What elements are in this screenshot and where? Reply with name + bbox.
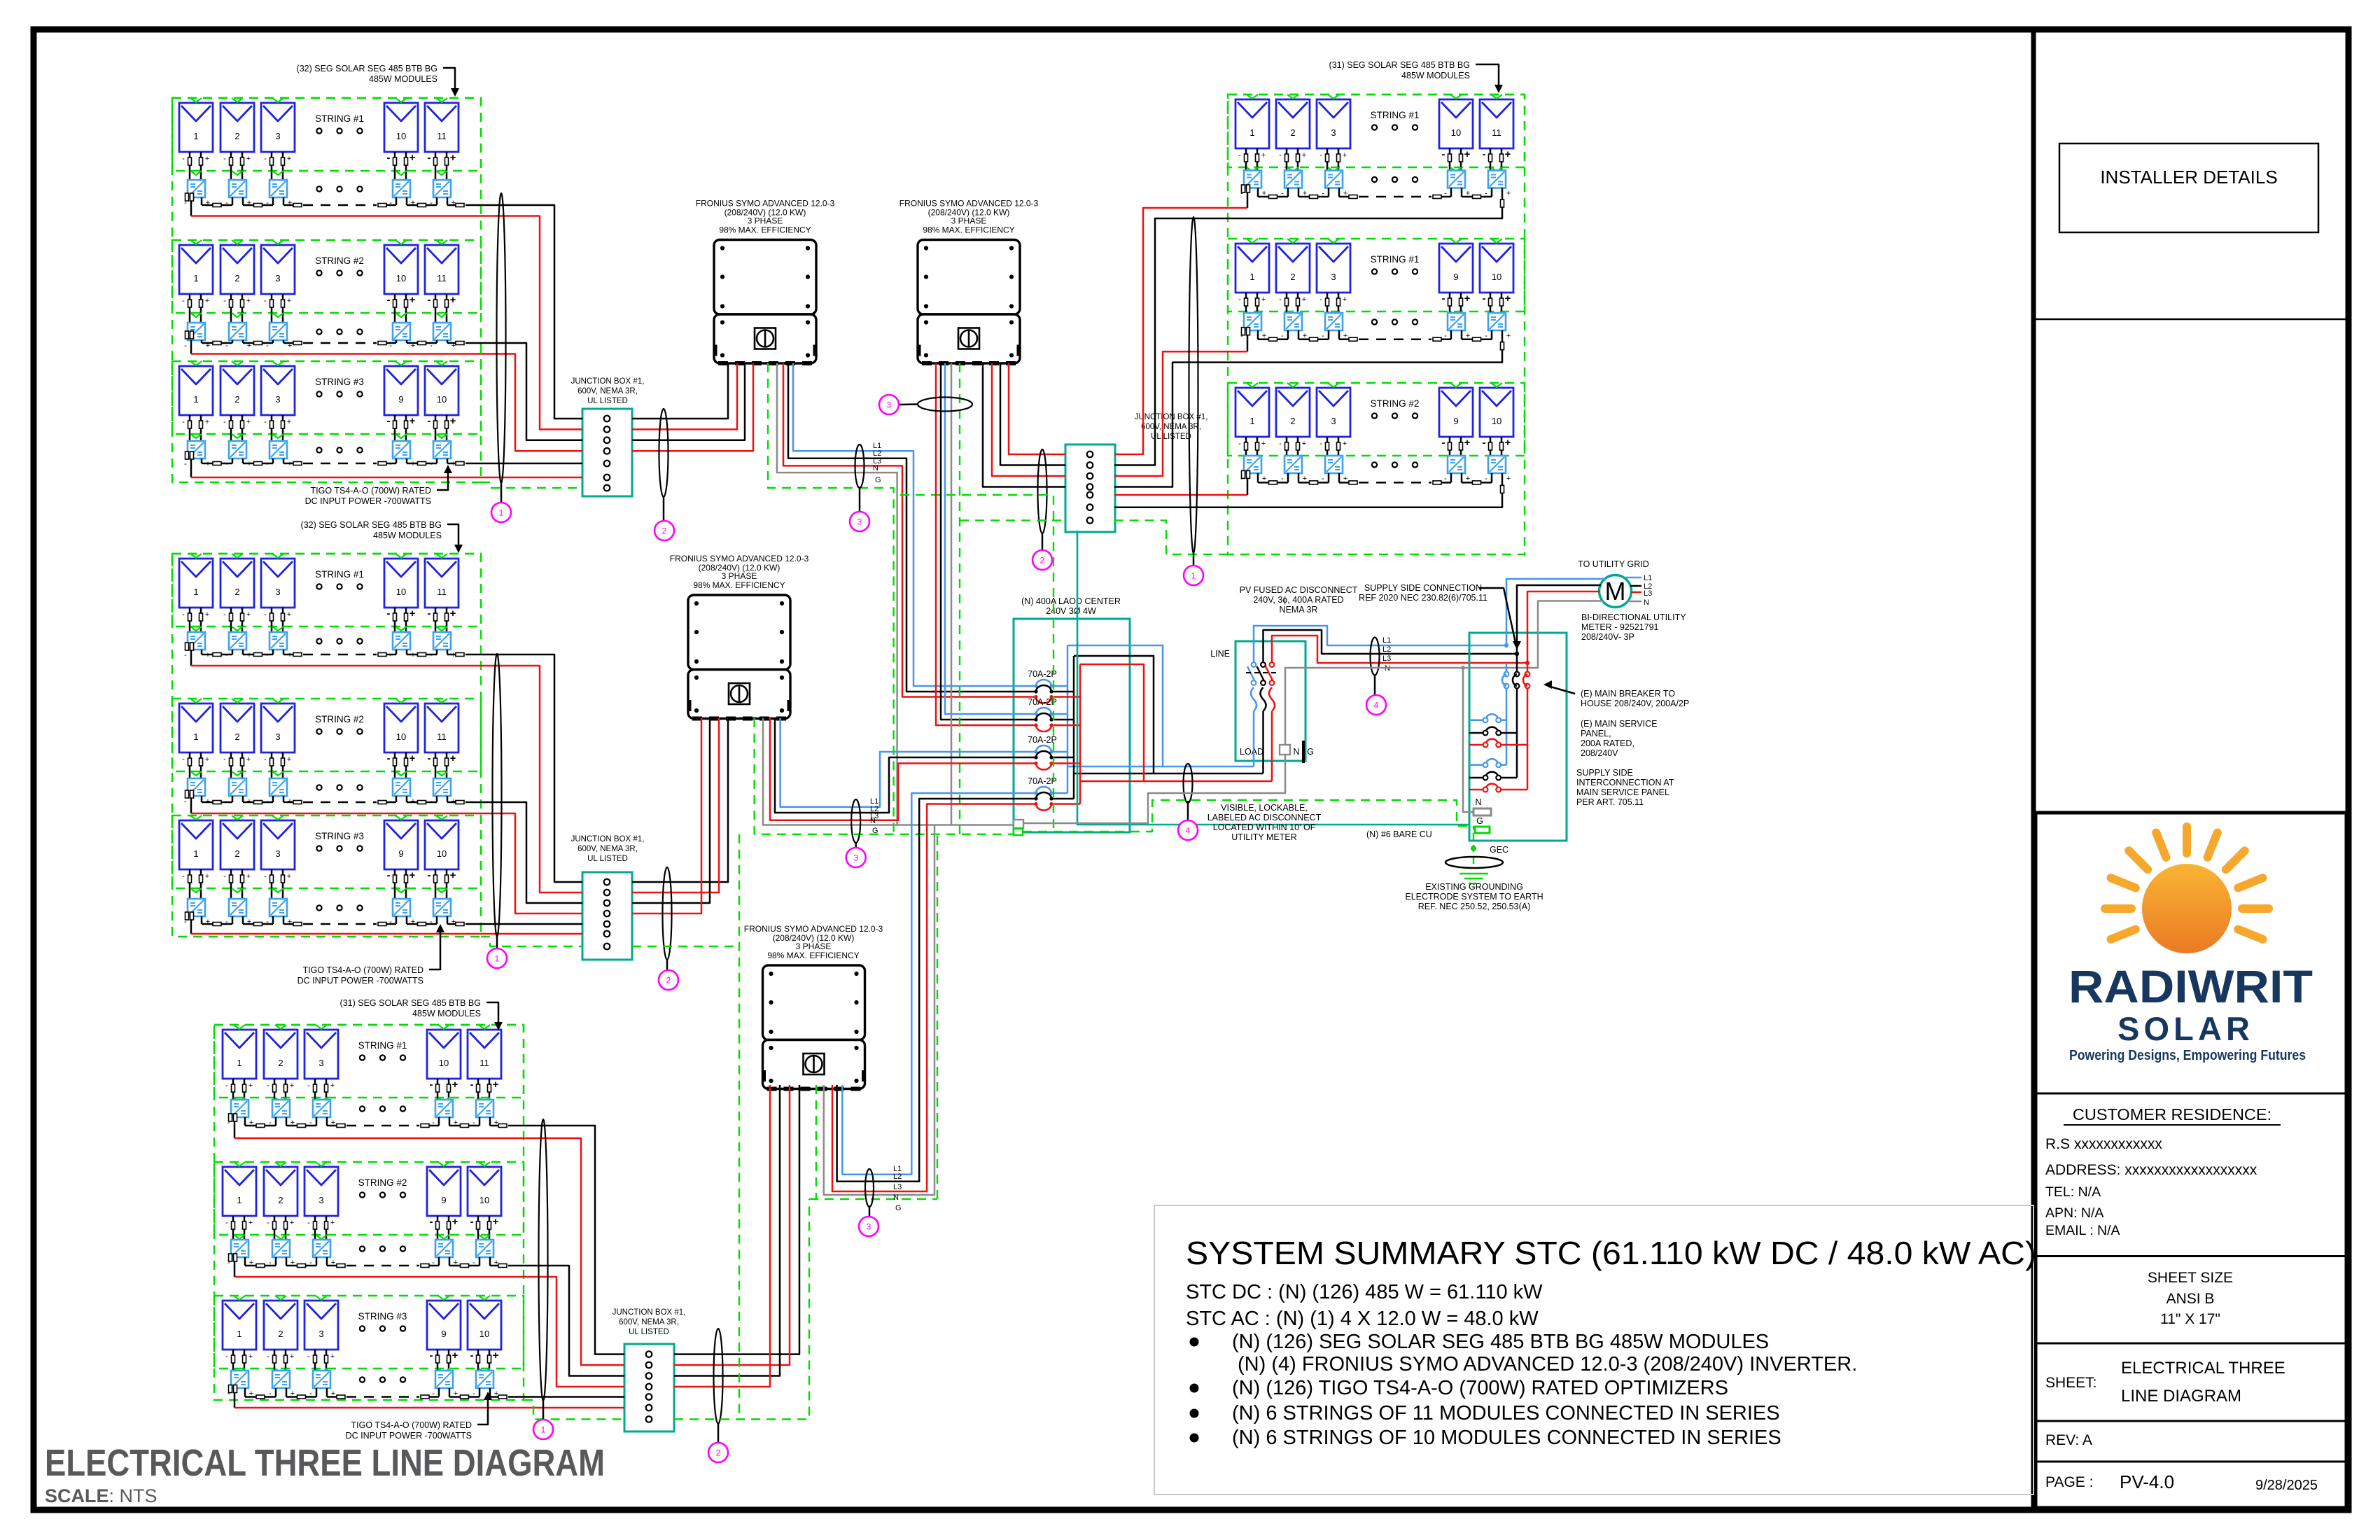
- svg-text:-: -: [223, 155, 226, 163]
- optimizer D3-9 (TIGO TS4-A-O): [1448, 456, 1465, 473]
- svg-text:REF. NEC 250.52, 250.53(A): REF. NEC 250.52, 250.53(A): [1418, 902, 1531, 911]
- wire: JB-C ground to ground run: [674, 1199, 809, 1420]
- PV module C3-9: [427, 1301, 461, 1350]
- svg-text:STRING #1: STRING #1: [315, 113, 364, 124]
- conduit tag leader: [855, 843, 857, 848]
- svg-text:-: -: [428, 869, 431, 881]
- svg-text:9: 9: [398, 848, 403, 859]
- green boundary notch over module: [275, 1025, 286, 1029]
- conduit tag leader: [666, 960, 668, 970]
- svg-text:L1: L1: [1644, 574, 1652, 582]
- service panel branch breaker pole (group1 2): [1485, 727, 1499, 733]
- svg-text:REF 2020 NEC 230.82(6)/705.11: REF 2020 NEC 230.82(6)/705.11: [1359, 593, 1487, 603]
- svg-text:N: N: [870, 817, 876, 825]
- svg-text:N: N: [893, 1193, 899, 1202]
- svg-text:+: +: [1464, 437, 1471, 449]
- junction box JB-A (group A combiner) terminal 6: [604, 475, 610, 481]
- wire: string A2 positive (black) to JB-A: [465, 343, 582, 440]
- svg-text:-: -: [428, 152, 431, 164]
- green boundary notch over module: [1491, 383, 1502, 387]
- svg-text:2: 2: [716, 1448, 721, 1458]
- svg-text:CUSTOMER RESIDENCE:: CUSTOMER RESIDENCE:: [2073, 1105, 2271, 1123]
- svg-text:2: 2: [278, 1195, 283, 1205]
- conduit tag leader: [496, 937, 498, 948]
- svg-text:-: -: [387, 294, 391, 306]
- svg-text:NEMA 3R: NEMA 3R: [1280, 605, 1318, 615]
- green boundary notch over module: [479, 1025, 490, 1029]
- module B2-10 output leads: [394, 752, 396, 778]
- svg-text:3 PHASE: 3 PHASE: [722, 571, 757, 581]
- svg-text:3: 3: [318, 1058, 323, 1068]
- svg-text:-: -: [264, 872, 267, 881]
- svg-text:2: 2: [278, 1329, 283, 1339]
- string C2 positive lead: [490, 1265, 500, 1267]
- string C2 module-row dashed boundary: [214, 1162, 524, 1235]
- green boundary notch over optimizer: [438, 1368, 449, 1373]
- green boundary notch over optimizer: [272, 771, 283, 776]
- svg-text:9/28/2025: 9/28/2025: [2255, 1478, 2318, 1493]
- junction box JB-B (group B combiner) enclosure: [582, 872, 632, 960]
- svg-text:+: +: [1261, 295, 1266, 304]
- svg-text:ADDRESS: xxxxxxxxxxxxxxxxxx: ADDRESS: xxxxxxxxxxxxxxxxxx: [2045, 1162, 2257, 1178]
- svg-text:SOLAR: SOLAR: [2117, 1010, 2257, 1047]
- wire: string C1 positive (black) to JB-C: [508, 1126, 624, 1354]
- optimizer B2-3 (TIGO TS4-A-O): [269, 778, 287, 796]
- wire: disconnect L3 line side (red): [1272, 636, 1527, 663]
- grounding electrode ellipse: [1445, 857, 1503, 868]
- wire: string C2 positive (black) to JB-C: [508, 1266, 624, 1376]
- svg-text:+: +: [409, 752, 416, 764]
- optimizer A2-2 (TIGO TS4-A-O): [229, 323, 246, 340]
- junction box JB-D (group D combiner) terminal 5: [1087, 492, 1093, 498]
- wire: string C3 negative (red) to JB-C: [234, 1407, 624, 1409]
- svg-text:-: -: [264, 755, 267, 764]
- PV module C2-3: [304, 1167, 338, 1216]
- string A3 positive lead: [447, 463, 457, 465]
- earth ground symbol: [1459, 873, 1488, 875]
- svg-text:-: -: [307, 1081, 310, 1090]
- load center neutral lug: [1014, 820, 1023, 828]
- string A3 series bus wiring: [190, 458, 192, 463]
- inverter U4 (Fronius Symo 12.0-3 bottom) upper enclosure: [763, 965, 865, 1040]
- svg-text:10: 10: [1492, 416, 1501, 426]
- svg-text:EMAIL : N/A: EMAIL : N/A: [2045, 1223, 2120, 1238]
- svg-text:JUNCTION BOX #1,: JUNCTION BOX #1,: [612, 1308, 686, 1317]
- svg-text:UL LISTED: UL LISTED: [1151, 433, 1191, 441]
- svg-text:10: 10: [1451, 127, 1461, 138]
- svg-text:INSTALLER DETAILS: INSTALLER DETAILS: [2100, 167, 2277, 188]
- svg-text:11: 11: [437, 131, 447, 141]
- junction box JB-C (group C combiner) terminal 7: [646, 1416, 652, 1422]
- svg-text:10: 10: [396, 731, 406, 742]
- svg-text:+: +: [452, 1350, 458, 1361]
- green boundary notch over module: [395, 699, 407, 703]
- svg-text:G: G: [1307, 747, 1314, 757]
- svg-text:-: -: [428, 752, 431, 764]
- PV module A2-2: [220, 245, 254, 294]
- optimizer A3-3 (TIGO TS4-A-O): [269, 441, 287, 458]
- optimizer row dots (A3): [316, 447, 321, 452]
- wire: meter neutral (gray): [1463, 601, 1603, 813]
- svg-text:LABELED AC DISCONNECT: LABELED AC DISCONNECT: [1207, 813, 1322, 822]
- svg-text:3: 3: [853, 853, 858, 863]
- conduit symbol: JB-D to U2: [1038, 449, 1047, 533]
- junction box JB-C (group C combiner) terminal 6: [646, 1405, 652, 1411]
- svg-text:G: G: [875, 476, 881, 484]
- string D3 series bus wiring: [1247, 473, 1249, 482]
- inverter U2 (Fronius Symo 12.0-3 top-right) upper enclosure: [918, 240, 1020, 315]
- optimizer D1-11 (TIGO TS4-A-O): [1488, 171, 1506, 188]
- main breaker pole L1: [1504, 672, 1509, 677]
- svg-text:STRING #3: STRING #3: [315, 831, 364, 841]
- sidebar divider: [2031, 29, 2036, 1510]
- wire: U3 neutral (gray) to LC: [763, 718, 1014, 825]
- string D1 module-row dashed boundary: [1228, 94, 1525, 167]
- green boundary notch over optimizer: [479, 1098, 490, 1102]
- module A1-11 output leads: [435, 152, 437, 180]
- green boundary notch over module: [1247, 239, 1258, 243]
- svg-text:LOAD: LOAD: [1240, 747, 1263, 757]
- green boundary notch over module: [316, 1296, 327, 1300]
- module D1-1 output leads: [1245, 148, 1247, 171]
- green boundary notch over optimizer: [438, 1235, 449, 1239]
- green boundary notch over module: [1328, 383, 1339, 387]
- green boundary notch over optimizer: [232, 313, 243, 317]
- svg-text:11: 11: [437, 731, 447, 742]
- string B1 series bus wiring: [190, 650, 192, 654]
- optimizer A1-10 (TIGO TS4-A-O): [393, 180, 410, 197]
- green boundary notch over optimizer: [1247, 167, 1258, 171]
- PV module B1-2: [220, 559, 254, 608]
- svg-text:70A-2P: 70A-2P: [1028, 735, 1057, 745]
- svg-text:-: -: [1279, 295, 1282, 304]
- svg-text:3: 3: [318, 1329, 323, 1339]
- svg-text:(N) 6 STRINGS OF 11 MODULES CO: (N) 6 STRINGS OF 11 MODULES CONNECTED IN…: [1232, 1402, 1780, 1424]
- green boundary notch over module: [436, 554, 447, 558]
- conduit tag 2 (JB-B feed): [659, 970, 678, 990]
- PV module A1-3: [261, 103, 295, 152]
- svg-text:+: +: [287, 155, 291, 163]
- svg-text:+: +: [205, 418, 209, 426]
- PV module B2-3: [261, 703, 295, 752]
- green boundary notch over module: [395, 554, 407, 558]
- optimizer D2-9 (TIGO TS4-A-O): [1448, 313, 1465, 330]
- svg-text:2: 2: [234, 131, 239, 141]
- wire: string D2 negative (red) to JB-D: [1114, 351, 1247, 476]
- service panel branch breaker pole (group2 1): [1485, 759, 1499, 764]
- inverter U2 (Fronius Symo 12.0-3 top-right) bottom gland plate: [922, 361, 932, 365]
- wire: string A1 positive (black) to JB-A: [465, 205, 582, 419]
- green boundary notch over optimizer: [232, 626, 243, 631]
- svg-text:1: 1: [237, 1058, 241, 1068]
- conduit tag 2 (JB-C feed): [708, 1443, 728, 1462]
- svg-text:METER - 92521791: METER - 92521791: [1581, 622, 1659, 632]
- wire: U4 L2 (black) to CB4: [837, 799, 1036, 1182]
- green boundary notch over optimizer: [272, 434, 283, 438]
- svg-text:LOCATED WITHIN 10' OF: LOCATED WITHIN 10' OF: [1213, 822, 1316, 832]
- AC disconnect pole L2 (fused switch): [1261, 662, 1266, 667]
- PV module C2-9: [427, 1167, 461, 1216]
- module A2-3 output leads: [271, 294, 273, 323]
- module B3-10 output leads: [435, 869, 437, 899]
- green boundary notch over optimizer: [190, 888, 202, 892]
- PV module B3-9: [384, 820, 418, 869]
- green boundary notch over optimizer: [1328, 167, 1339, 171]
- svg-text:+: +: [246, 297, 251, 305]
- svg-text:TEL: N/A: TEL: N/A: [2045, 1184, 2101, 1200]
- svg-text:2: 2: [278, 1058, 283, 1068]
- green boundary notch over module: [190, 240, 202, 244]
- green boundary notch over optimizer: [190, 626, 202, 631]
- optimizer row dots (C3): [360, 1377, 365, 1382]
- svg-text:3: 3: [867, 1222, 871, 1232]
- AC disconnect pole L1 (fused switch): [1252, 662, 1256, 667]
- svg-text:+: +: [1302, 295, 1306, 304]
- svg-text:10: 10: [439, 1058, 449, 1068]
- svg-text:1: 1: [1249, 416, 1254, 426]
- conduit symbol: group D homeruns: [1189, 217, 1198, 553]
- svg-text:+: +: [450, 294, 456, 306]
- green boundary notch over optimizer: [272, 313, 283, 317]
- green boundary notch over module: [1491, 239, 1502, 243]
- svg-text:APN: N/A: APN: N/A: [2045, 1205, 2103, 1221]
- wire: CB4 load-side links: [1051, 792, 1067, 794]
- title block divider: [2036, 1343, 2346, 1345]
- svg-text:+: +: [1505, 293, 1511, 304]
- svg-text:PANEL,: PANEL,: [1581, 729, 1611, 738]
- svg-text:(N) #6 BARE CU: (N) #6 BARE CU: [1366, 829, 1432, 839]
- svg-text:-: -: [1319, 151, 1322, 160]
- svg-text:-: -: [267, 1352, 269, 1361]
- green boundary notch over module: [272, 240, 283, 244]
- inverter U3 (Fronius Symo 12.0-3 middle) upper enclosure: [688, 595, 790, 670]
- svg-text:3 PHASE: 3 PHASE: [748, 216, 783, 226]
- svg-text:-: -: [428, 294, 431, 306]
- string A1 positive lead: [447, 204, 457, 206]
- inverter U1 (Fronius Symo 12.0-3 top-left) upper enclosure: [714, 240, 816, 315]
- PV module B2-2: [220, 703, 254, 752]
- green boundary notch over optimizer: [190, 434, 202, 438]
- svg-text:(E) MAIN BREAKER TO: (E) MAIN BREAKER TO: [1581, 689, 1675, 699]
- svg-text:-: -: [182, 610, 185, 619]
- module D2-10 output leads: [1490, 293, 1492, 313]
- svg-text:STRING #2: STRING #2: [315, 714, 364, 724]
- svg-text:600V, NEMA 3R,: 600V, NEMA 3R,: [577, 387, 638, 395]
- junction box JB-B (group B combiner) terminal 7: [604, 944, 610, 950]
- wire: string B2 positive (black) to JB-B: [465, 802, 582, 903]
- green boundary notch over module: [234, 1162, 245, 1166]
- installer details box: [2059, 143, 2318, 232]
- green boundary notch over module: [1247, 383, 1258, 387]
- svg-text:UL LISTED: UL LISTED: [629, 1328, 669, 1336]
- svg-text:STRING #1: STRING #1: [315, 569, 364, 580]
- svg-text:N: N: [873, 464, 878, 472]
- svg-text:G: G: [895, 1204, 902, 1212]
- optimizer C2-3 (TIGO TS4-A-O): [313, 1240, 330, 1257]
- svg-text:485W MODULES: 485W MODULES: [412, 1009, 481, 1018]
- green boundary notch over optimizer: [395, 434, 407, 438]
- optimizer row dots (B3): [316, 905, 321, 910]
- svg-text:-: -: [1483, 293, 1486, 304]
- svg-text:10: 10: [396, 273, 406, 283]
- green boundary notch over module: [190, 361, 202, 365]
- green boundary notch over optimizer: [275, 1368, 286, 1373]
- svg-text:-: -: [1238, 151, 1241, 160]
- svg-text:485W MODULES: 485W MODULES: [373, 531, 442, 540]
- svg-text:Powering Designs, Empowering F: Powering Designs, Empowering Futures: [2069, 1048, 2306, 1063]
- green boundary notch over module: [1328, 94, 1339, 99]
- svg-text:10: 10: [1492, 272, 1501, 282]
- svg-text:TIGO TS4-A-O (700W) RATED: TIGO TS4-A-O (700W) RATED: [311, 486, 431, 496]
- module A1-1 output leads: [189, 152, 191, 180]
- wire: JB-B DC output 1 to inverter U3: [632, 718, 728, 882]
- panel L3 bus (red): [1527, 689, 1529, 790]
- svg-text:-: -: [307, 1219, 310, 1227]
- PV module C2-10: [468, 1167, 501, 1216]
- svg-text:-: -: [387, 608, 391, 619]
- svg-text:+: +: [246, 755, 251, 764]
- svg-text:(N) (126) SEG SOLAR SEG 485 BT: (N) (126) SEG SOLAR SEG 485 BTB BG 485W …: [1232, 1331, 1769, 1353]
- optimizer row dots (C1): [360, 1106, 365, 1111]
- svg-text:3 PHASE: 3 PHASE: [951, 216, 987, 226]
- wire: disconnect L2 line side (black): [1263, 630, 1518, 662]
- svg-text:L3: L3: [1382, 654, 1391, 663]
- svg-text:2: 2: [234, 731, 239, 742]
- junction box JB-A (group A combiner) terminal 5: [604, 461, 610, 467]
- green boundary notch over module: [1450, 94, 1462, 99]
- svg-text:STRING #3: STRING #3: [358, 1311, 407, 1322]
- svg-text:+: +: [205, 155, 209, 163]
- PV module D2-9: [1439, 244, 1473, 293]
- system summary box: [1154, 1205, 2033, 1494]
- green boundary notch over optimizer: [316, 1368, 327, 1373]
- svg-text:STRING #2: STRING #2: [358, 1177, 407, 1188]
- svg-text:M: M: [1605, 577, 1626, 605]
- svg-text:SUPPLY SIDE CONNECTION: SUPPLY SIDE CONNECTION: [1364, 583, 1482, 593]
- junction box JB-B (group B combiner) terminal 4: [604, 911, 610, 917]
- green boundary notch over optimizer: [275, 1098, 286, 1102]
- panel L2 bus (black): [1516, 689, 1518, 778]
- svg-text:2: 2: [234, 848, 239, 859]
- green boundary notch over module: [232, 240, 243, 244]
- module C3-3 output leads: [314, 1350, 316, 1371]
- conduit tag leader: [869, 1207, 871, 1217]
- optimizer C2-9 (TIGO TS4-A-O): [435, 1240, 453, 1257]
- PV module D3-10: [1480, 388, 1513, 437]
- green boundary notch over module: [316, 1162, 327, 1166]
- wire: U4 L3 (red) to CB4: [832, 804, 1036, 1192]
- svg-text:+: +: [450, 869, 456, 881]
- svg-text:-: -: [430, 1216, 433, 1228]
- svg-text:600V, NEMA 3R,: 600V, NEMA 3R,: [1141, 423, 1201, 431]
- svg-text:-: -: [264, 610, 267, 619]
- svg-text:+: +: [287, 418, 291, 426]
- conduit tag leader: [1042, 533, 1044, 550]
- svg-text:+: +: [450, 752, 456, 764]
- svg-text:-: -: [184, 797, 187, 806]
- AC disconnect neutral lug: [1280, 745, 1290, 755]
- svg-text:PAGE :: PAGE :: [2045, 1474, 2093, 1490]
- wire: JB-B DC output 2 to inverter U3: [632, 718, 719, 892]
- svg-text:208/240V: 208/240V: [1581, 748, 1618, 758]
- optimizer A1-11 (TIGO TS4-A-O): [433, 180, 451, 197]
- svg-text:2: 2: [666, 976, 671, 986]
- panel ground bar: [1475, 827, 1490, 833]
- inverter U3 (Fronius Symo 12.0-3 middle) screws: [694, 601, 699, 605]
- green boundary notch over module: [479, 1296, 490, 1300]
- svg-text:DC INPUT POWER -700WATTS: DC INPUT POWER -700WATTS: [297, 976, 423, 986]
- wire: U2 L2 (black) to CB2: [941, 363, 1036, 720]
- conduit tag 3 (U3 AC): [846, 848, 866, 867]
- utility meter symbol: [1599, 575, 1632, 608]
- junction box JB-B (group B combiner) terminal 1: [604, 879, 610, 885]
- green boundary notch over optimizer: [272, 171, 283, 175]
- svg-text:JUNCTION BOX #1,: JUNCTION BOX #1,: [571, 835, 645, 843]
- green boundary notch over module: [395, 361, 407, 365]
- conduit symbol: JB-C to U4: [714, 1329, 723, 1424]
- service panel branch breaker pole (group1 1): [1485, 714, 1499, 720]
- green boundary notch over optimizer: [234, 1098, 245, 1102]
- PV module D1-1: [1235, 99, 1269, 148]
- PV module A2-10: [384, 245, 418, 294]
- svg-text:600V, NEMA 3R,: 600V, NEMA 3R,: [577, 845, 638, 853]
- svg-text:485W MODULES: 485W MODULES: [1401, 71, 1470, 80]
- optimizer D1-2 (TIGO TS4-A-O): [1284, 171, 1302, 188]
- module D1-10 output leads: [1449, 148, 1451, 171]
- inverter U3 (Fronius Symo 12.0-3 middle) bottom gland plate: [692, 717, 702, 721]
- green boundary notch over module: [232, 554, 243, 558]
- svg-text:+: +: [1343, 440, 1347, 448]
- optimizer B1-2 (TIGO TS4-A-O): [229, 632, 246, 650]
- green boundary notch over optimizer: [1450, 311, 1462, 316]
- AC disconnect interphase tie (dashed): [1246, 672, 1278, 673]
- svg-text:+: +: [330, 1219, 335, 1227]
- string D2 negative lead to red homerun: [1247, 339, 1249, 352]
- svg-text:9: 9: [441, 1195, 446, 1205]
- svg-text:REV: A: REV: A: [2045, 1432, 2092, 1448]
- module C2-10 output leads: [477, 1216, 479, 1240]
- green boundary notch over optimizer: [436, 171, 447, 175]
- svg-text:9: 9: [1453, 272, 1458, 282]
- svg-text:TO UTILITY GRID: TO UTILITY GRID: [1578, 559, 1649, 569]
- conduit symbol: U3 AC run: [851, 799, 860, 843]
- svg-text:+: +: [1464, 148, 1471, 160]
- optimizer B1-11 (TIGO TS4-A-O): [433, 632, 451, 650]
- svg-text:+: +: [1506, 475, 1511, 483]
- wire: JB-C DC output 1 to inverter U4: [674, 1085, 799, 1354]
- wire: CB1 load-side links: [1051, 685, 1067, 687]
- svg-text:SHEET:: SHEET:: [2045, 1375, 2097, 1391]
- svg-text:1: 1: [237, 1329, 241, 1339]
- svg-text:70A-2P: 70A-2P: [1028, 669, 1057, 679]
- string A1 series bus wiring: [190, 197, 192, 205]
- enclosure bonding run (teal): [1077, 531, 1469, 825]
- optimizer A2-11 (TIGO TS4-A-O): [433, 323, 451, 340]
- module B1-10 output leads: [394, 608, 396, 632]
- module D1-3 output leads: [1326, 148, 1329, 171]
- svg-text:UL LISTED: UL LISTED: [587, 855, 628, 863]
- svg-text:-: -: [428, 415, 431, 427]
- optimizer row dots (B1): [316, 638, 321, 643]
- wire: U2 ground (green): [959, 363, 960, 834]
- module D2-3 output leads: [1326, 293, 1329, 313]
- svg-text:1: 1: [1249, 272, 1254, 282]
- optimizer D2-2 (TIGO TS4-A-O): [1284, 313, 1302, 330]
- green boundary notch over optimizer: [479, 1368, 490, 1373]
- wire: string A3 negative (red) to JB-A: [191, 477, 582, 479]
- green boundary notch over module: [190, 815, 202, 820]
- green boundary notch over optimizer: [436, 434, 447, 438]
